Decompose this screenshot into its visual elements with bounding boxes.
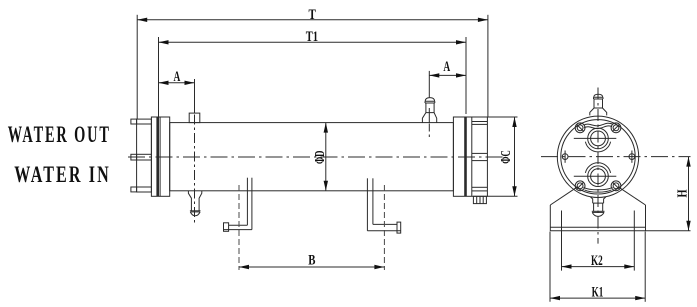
svg-text:WATER IN: WATER IN — [14, 162, 111, 187]
right cover top step lines — [472, 121, 488, 123]
upper rib wavy lines — [584, 126, 612, 129]
left support bracket vertical plate — [246, 178, 248, 226]
right support bracket foot — [373, 223, 397, 225]
end view valve flare — [590, 99, 607, 115]
left tubesheet thick band — [156, 117, 159, 196]
svg-text:ΦC: ΦC — [499, 150, 514, 164]
right bracket foot end cap — [397, 222, 401, 233]
end view vertical centerline — [597, 88, 599, 244]
end view drain fitting — [590, 197, 606, 211]
dimension T line — [137, 19, 488, 21]
right support bracket vertical plate — [366, 178, 368, 231]
end view valve ring — [594, 97, 604, 99]
dimension phiD line — [325, 123, 327, 191]
bonnet bottom pipe tab — [131, 187, 137, 192]
bolt tick UL — [577, 125, 584, 132]
left tubesheet thin line — [159, 117, 161, 196]
right cover inner line — [471, 117, 473, 196]
left flange box — [151, 117, 169, 196]
drain valve under shell left — [188, 191, 201, 211]
stand base top — [550, 226, 645, 228]
shell centerline — [128, 156, 503, 158]
left support bracket foot — [229, 224, 248, 226]
bolt tick LR — [613, 183, 619, 189]
dimension K1 line — [550, 297, 645, 299]
stand right shoulder — [618, 187, 645, 205]
end drain rim — [592, 210, 605, 212]
end view horizontal centerline — [541, 156, 691, 158]
bonnet middle partition tab — [131, 154, 137, 160]
svg-text:A: A — [174, 69, 181, 85]
svg-text:H: H — [675, 189, 690, 197]
right cover partition lines — [472, 152, 488, 154]
end view valve dome — [594, 94, 603, 97]
svg-text:WATER OUT: WATER OUT — [8, 122, 111, 147]
dimension K1 extension lines — [549, 232, 551, 302]
svg-text:A: A — [443, 59, 450, 75]
dimension T1 line — [159, 41, 467, 43]
dimension phiC extension lines — [487, 116, 517, 118]
stand left side — [549, 205, 551, 231]
dimension B line — [239, 266, 384, 268]
top port boss arc — [585, 142, 610, 152]
bolt tick left — [564, 151, 566, 163]
dimension T1 extension lines — [158, 37, 160, 117]
safety valve ring band — [425, 101, 435, 103]
drain valve rim — [190, 210, 201, 212]
bolt tick UR — [613, 125, 620, 132]
dimension phiC line — [514, 117, 516, 196]
water port bottom — [588, 166, 609, 187]
right head drain plug — [473, 196, 486, 203]
svg-text:B: B — [308, 253, 316, 269]
right bracket bolt centerline — [383, 185, 385, 270]
svg-text:T1: T1 — [306, 29, 318, 45]
bonnet top pipe tab — [131, 119, 137, 124]
left bracket bolt centerline — [238, 185, 240, 270]
dimension H line — [688, 157, 690, 231]
svg-text:T: T — [309, 7, 317, 23]
bolt tick right — [631, 151, 633, 163]
bonnet partition lines — [137, 153, 152, 155]
bonnet (left water box) — [137, 119, 152, 192]
end drain cone tip — [592, 212, 604, 216]
right tubesheet thick band — [464, 117, 467, 196]
svg-text:K2: K2 — [591, 253, 603, 269]
vent nozzle on shell top — [189, 113, 200, 123]
dimension K2 line — [562, 266, 635, 268]
left bracket foot end cap — [224, 223, 229, 232]
bonnet bottom step line — [137, 186, 152, 188]
end cover outer circle — [557, 116, 638, 197]
vent/drain centerline — [194, 79, 196, 113]
stand left shoulder — [550, 187, 577, 205]
bottom port tick line — [574, 175, 617, 177]
safety valve dome — [425, 98, 434, 102]
svg-text:K1: K1 — [592, 284, 604, 300]
dimension T extension lines — [136, 15, 138, 119]
stand base bottom — [550, 230, 690, 232]
dimension A right line — [429, 74, 466, 76]
shell — [170, 123, 454, 191]
dimension A left line — [159, 82, 195, 84]
dimension K2 extension lines — [561, 211, 563, 271]
bolt holes — [562, 154, 568, 160]
top port tick line — [574, 137, 617, 139]
drain valve dome tip — [190, 212, 200, 216]
end cover inner circle — [561, 120, 635, 194]
water port top — [588, 128, 609, 149]
end drain rim second line — [592, 211, 604, 213]
safety valve on shell top right — [422, 103, 436, 123]
right cover bottom step lines — [472, 186, 488, 188]
safety valve centerline — [428, 71, 430, 98]
bolt tick LL — [577, 183, 583, 189]
svg-text:ΦD: ΦD — [313, 151, 328, 165]
boss circles around corner bolts — [575, 123, 585, 133]
stand right side — [645, 205, 647, 231]
lower rib wavy lines — [584, 187, 613, 189]
bottom port boss arc — [585, 163, 610, 173]
bonnet top step line — [137, 123, 152, 125]
right flange box — [453, 117, 487, 196]
